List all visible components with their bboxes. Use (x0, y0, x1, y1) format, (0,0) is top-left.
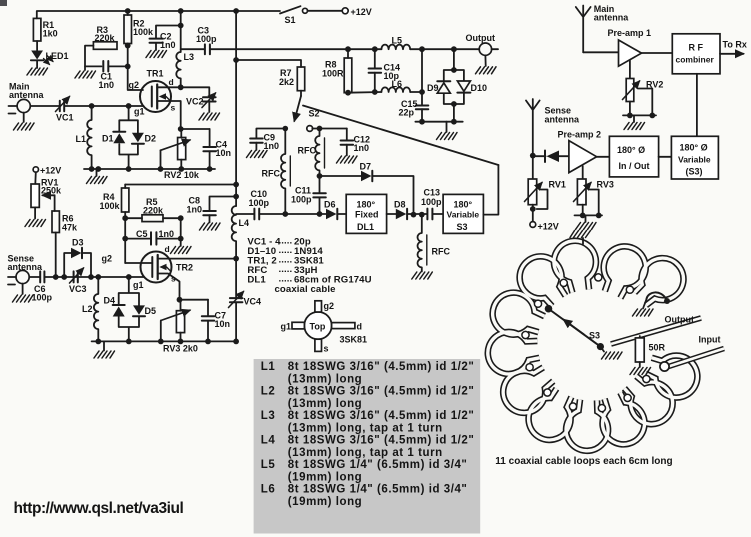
wire antenna to TR1 g1 (30, 105, 143, 107)
resistor R1 (33, 18, 41, 41)
wire diagonal leader (303, 106, 498, 166)
svg-text:3SK81: 3SK81 (340, 335, 368, 345)
svg-text:1n0: 1n0 (187, 205, 203, 215)
wiper RV1 (43, 194, 55, 196)
svg-text:47k: 47k (62, 223, 78, 233)
loop 4 (593, 240, 652, 303)
svg-text:8t 18SWG 1/4" (6.5mm) id 3/4": 8t 18SWG 1/4" (6.5mm) id 3/4" (288, 459, 468, 471)
svg-text:RV3 2k0: RV3 2k0 (163, 344, 198, 354)
node L5L6 right (419, 46, 425, 52)
wire combiner to variable box (696, 74, 698, 137)
phase box S3 (443, 194, 483, 233)
svg-text:D9: D9 (427, 83, 439, 93)
wire L5 to output (410, 48, 479, 50)
wire S2 right to C12 (312, 128, 347, 130)
svg-text:g2: g2 (129, 80, 140, 90)
choke RFC bottom (417, 215, 421, 272)
inductor L6 (381, 87, 410, 92)
svg-text:Pre-amp 2: Pre-amp 2 (558, 130, 602, 140)
node rail right (233, 339, 239, 345)
pinout 3SK81 (281, 301, 368, 354)
node C11 bottom (317, 211, 323, 217)
ground filter bottom (446, 122, 448, 132)
svg-text:L4: L4 (239, 218, 250, 228)
wire source node to C7 (180, 299, 209, 301)
resistor R6 (52, 211, 59, 233)
inductor L1 (87, 106, 91, 169)
node D3 right (88, 274, 94, 280)
node RFC left bottom (282, 211, 288, 217)
wire L6 junction down (421, 49, 423, 105)
node D7 branch (317, 173, 323, 179)
potentiometer RV2 block (629, 61, 631, 79)
svg-text:D3: D3 (72, 238, 84, 248)
loop 12 (485, 329, 540, 377)
terminal +12V lower left (33, 167, 38, 172)
diode pair D9 D10 frame (451, 46, 457, 52)
choke RFC left (281, 129, 285, 214)
capacitor C13 (427, 209, 432, 220)
resistor R4 (124, 185, 126, 189)
capacitor C5 (122, 236, 128, 242)
diode D9 (437, 80, 450, 82)
wire output line L5 (348, 48, 381, 50)
ground TR1 stage (96, 169, 98, 176)
node rail D1D2 (126, 166, 132, 172)
svg-text:D7: D7 (360, 162, 372, 172)
wire L4 tap line (236, 213, 254, 215)
varicap VC2 (181, 87, 210, 97)
input stub coax (667, 349, 724, 368)
svg-text:s: s (171, 103, 176, 113)
svg-text:L6: L6 (261, 484, 276, 496)
svg-text:180°: 180° (454, 200, 473, 210)
svg-text:TR1: TR1 (147, 69, 164, 79)
node rail D4D5 (126, 339, 132, 345)
terminal Output (479, 43, 491, 55)
svg-text:antenna: antenna (9, 90, 45, 100)
svg-text:8t 18SWG 3/16" (4.5mm) id 1/2": 8t 18SWG 3/16" (4.5mm) id 1/2" (288, 435, 475, 447)
diode pair D4 D5 frame (119, 277, 139, 341)
node R2/R3 (125, 43, 131, 49)
svg-text:L4: L4 (261, 435, 276, 447)
potentiometer RV1 (34, 172, 37, 184)
svg-text:(13mm) long: (13mm) long (288, 398, 362, 410)
capacitor C6 (29, 276, 40, 278)
transistor TR1 (140, 69, 171, 113)
wire g2 of TR1 (128, 66, 143, 90)
node R8 bottom (345, 90, 351, 96)
loop 6 (641, 346, 704, 404)
svg-text:antenna: antenna (545, 115, 581, 125)
svg-text:180° Ø: 180° Ø (680, 143, 708, 153)
block 180 in/out (609, 136, 658, 177)
wire C3 to output filter (210, 48, 348, 50)
wire L3 feed (180, 11, 182, 52)
node C14 bottom (372, 89, 378, 95)
coax shield curl with ground (647, 292, 667, 299)
inductor L3 (176, 52, 180, 87)
ground R3/C1 left (75, 71, 96, 78)
wire inout to variable (659, 156, 672, 158)
block RF combiner (672, 34, 720, 74)
node C13 RFC (419, 212, 425, 218)
diode D3 bridge (64, 253, 91, 277)
svg-text:Variable: Variable (678, 155, 711, 165)
svg-text:d: d (357, 322, 363, 332)
svg-text:D5: D5 (145, 306, 157, 316)
svg-text:8t 18SWG 3/16" (4.5mm) id 1/2": 8t 18SWG 3/16" (4.5mm) id 1/2" (288, 386, 475, 398)
wire R2 bottom to C1 node (127, 46, 129, 67)
svg-text:+12V: +12V (538, 222, 559, 232)
svg-text:VC2: VC2 (186, 97, 204, 107)
wire TR2 stage ground rail (92, 340, 237, 342)
svg-text:D1: D1 (102, 134, 114, 144)
wire sense line (44, 276, 143, 278)
svg-text:Pre-amp 1: Pre-amp 1 (608, 28, 652, 38)
svg-text:antenna: antenna (8, 262, 44, 272)
node rail RV2 (178, 166, 184, 172)
node rail RV3 wiper (158, 339, 164, 345)
node rail L2 (95, 339, 101, 345)
svg-text:1n0: 1n0 (99, 80, 115, 90)
svg-text:(13mm) long: (13mm) long (288, 373, 362, 385)
node R7 branch (233, 57, 239, 63)
choke RFC right (315, 129, 319, 177)
transistor TR2 (141, 252, 194, 283)
svg-text:DL1: DL1 (357, 222, 374, 232)
capacitor C8 (210, 197, 237, 211)
loop 10 (521, 383, 582, 448)
svg-text:In / Out: In / Out (619, 161, 650, 171)
svg-text:100p: 100p (421, 197, 442, 207)
resistor R2 (124, 15, 132, 44)
svg-text:g1: g1 (281, 322, 292, 332)
svg-text:1n0: 1n0 (159, 229, 175, 239)
connector rings (534, 300, 541, 307)
node L2 top (95, 274, 101, 280)
loop 7 (616, 367, 682, 433)
wire TR1 stage ground rail (84, 168, 215, 170)
wire R5C5 to ground (180, 218, 182, 246)
resistor R8 (345, 46, 351, 52)
varicap VC1 (60, 101, 64, 111)
svg-text:D2: D2 (145, 134, 157, 144)
capacitor C7 (207, 300, 209, 316)
main antenna symbol (9, 106, 18, 114)
node D4D5 top (126, 274, 132, 280)
node C1/g2 (125, 64, 131, 70)
node rail RV3 (178, 339, 184, 345)
svg-text:VC1: VC1 (56, 113, 74, 123)
svg-text:8t 18SWG 3/16" (4.5mm) id 1/2": 8t 18SWG 3/16" (4.5mm) id 1/2" (288, 410, 475, 422)
svg-text:220k: 220k (143, 206, 164, 216)
svg-text:1n0: 1n0 (160, 40, 176, 50)
diode pair D1 D2 frame (119, 106, 138, 169)
svg-text:Output: Output (665, 315, 695, 325)
diode D10 (457, 81, 470, 91)
svg-text:L1: L1 (76, 134, 87, 144)
svg-text:L3: L3 (261, 410, 276, 422)
ground top of loops (570, 231, 591, 238)
wire S3 right (483, 165, 498, 215)
varicap VC3 (74, 271, 78, 282)
svg-text:D4: D4 (104, 296, 116, 306)
diode D7 (320, 175, 362, 177)
inductor L5 (381, 45, 410, 50)
potentiometer RV3 (176, 311, 184, 333)
svg-text:C13: C13 (424, 188, 441, 198)
diode D6 (326, 209, 337, 219)
svg-text:100p: 100p (196, 34, 217, 44)
resistor R7 (236, 60, 301, 67)
svg-text:100p: 100p (249, 198, 270, 208)
svg-text:D6: D6 (324, 200, 336, 210)
wire top +12V rail (37, 11, 280, 18)
wire TR2 g2 (125, 262, 152, 264)
svg-text:RV1: RV1 (549, 180, 566, 190)
svg-text:RV2: RV2 (646, 80, 663, 90)
svg-text:100p: 100p (32, 293, 53, 303)
svg-text:1n0: 1n0 (354, 143, 370, 153)
svg-text:L2: L2 (82, 304, 93, 314)
svg-text:10n: 10n (216, 148, 232, 158)
capacitor C2 (156, 26, 181, 39)
svg-text:50R: 50R (649, 343, 666, 353)
svg-text:(S3): (S3) (686, 167, 703, 177)
node sense junction (530, 153, 536, 159)
capacitor C10 (254, 209, 259, 220)
capacitor C15 (416, 106, 429, 110)
potentiometer RV3 block (582, 166, 584, 179)
loop 9 (565, 399, 609, 452)
loop 8 (593, 388, 651, 451)
potentiometer RV2 (178, 138, 186, 160)
node right feed top (233, 8, 239, 14)
svg-text:RV3: RV3 (597, 180, 614, 190)
loop 11 (495, 357, 561, 421)
arrow To Rx (720, 53, 744, 55)
node rail C7 (205, 339, 211, 345)
node D1D2 top (126, 103, 132, 109)
wire drain line to VC4 (235, 259, 237, 298)
loop 3 (550, 237, 601, 295)
svg-text:Fixed: Fixed (355, 210, 379, 220)
node feed right (233, 182, 239, 188)
diode D5 (133, 305, 145, 314)
ground S3 pivot (600, 347, 604, 352)
svg-text:D8: D8 (394, 200, 406, 210)
inductor L2 (94, 277, 98, 341)
node L1 top (89, 103, 95, 109)
gray parts table (254, 359, 481, 534)
capacitor C14 (374, 49, 376, 68)
node TR1 drain (178, 84, 184, 90)
svg-text:g2: g2 (102, 254, 113, 264)
svg-text:C5: C5 (136, 229, 148, 239)
svg-text:coaxial cable: coaxial cable (275, 284, 336, 295)
capacitor C4 (209, 129, 211, 147)
terminal +12V block (530, 222, 536, 228)
switch S1 (280, 6, 301, 13)
wire source node to C4 (181, 128, 210, 130)
svg-text:antenna: antenna (594, 13, 630, 23)
svg-text:Variable: Variable (447, 210, 480, 220)
diode D1 (113, 131, 125, 133)
node C8 branch (233, 194, 239, 200)
svg-text:L5: L5 (392, 36, 403, 46)
svg-text:Input: Input (699, 335, 721, 345)
svg-text:combiner: combiner (676, 55, 715, 65)
loop 2 (511, 248, 575, 314)
node R5 right (178, 215, 184, 221)
node TR1 source RV2 (178, 126, 184, 132)
svg-text:S1: S1 (285, 15, 296, 25)
svg-text:R F: R F (689, 43, 704, 53)
node C2 branch (178, 23, 184, 29)
output stub coax (611, 318, 701, 344)
coax loop assembly (485, 231, 724, 468)
wire preamp2 to inout box (597, 156, 610, 158)
svg-text:.....: ..... (279, 274, 293, 285)
diode D8 (387, 213, 396, 215)
svg-text:22p: 22p (399, 108, 415, 118)
svg-text:g1: g1 (133, 280, 144, 290)
node R4 R5 (122, 215, 128, 221)
svg-text:RFC: RFC (298, 146, 317, 156)
node R2 top (125, 8, 131, 14)
svg-text:+12V: +12V (40, 166, 61, 176)
capacitor C12 (346, 129, 348, 141)
svg-text:Top: Top (310, 322, 326, 332)
svg-text:180° Ø: 180° Ø (617, 145, 645, 155)
svg-text:100p: 100p (291, 195, 312, 205)
LED LED1 (31, 51, 43, 60)
svg-text:(13mm) long, tap at 1 turn: (13mm) long, tap at 1 turn (288, 422, 443, 434)
svg-text:S3: S3 (457, 222, 468, 232)
node TR2 source (177, 297, 183, 303)
svg-text:8t 18SWG 3/16" (4.5mm) id 1/2": 8t 18SWG 3/16" (4.5mm) id 1/2" (288, 361, 475, 373)
wire TR2 source (158, 274, 180, 300)
delay line DL1 box (346, 194, 386, 233)
wire R1 to LED1 (36, 41, 38, 51)
wire R4 feed (125, 184, 236, 186)
svg-text:DL1: DL1 (247, 275, 266, 286)
svg-text:TR2: TR2 (176, 263, 193, 273)
svg-text:+12V: +12V (351, 7, 372, 17)
wire TR2 drain (158, 258, 236, 260)
svg-text:11 coaxial cable loops each 6c: 11 coaxial cable loops each 6cm long (495, 456, 672, 467)
wire right feed vertical upper (235, 11, 237, 206)
block diagram main antenna (576, 6, 591, 53)
svg-text:180°: 180° (357, 200, 376, 210)
svg-text:VC3: VC3 (69, 284, 87, 294)
inductor L4 (232, 206, 236, 259)
svg-text:250k: 250k (41, 186, 62, 196)
resistor R3 (93, 42, 117, 50)
diode D2 (132, 133, 144, 142)
svg-text:100k: 100k (133, 27, 154, 37)
coax loop cores (white) (487, 287, 549, 344)
svg-text:(19mm) long: (19mm) long (288, 471, 362, 483)
block 180 variable S3 (671, 136, 718, 179)
wire filter bottom (415, 121, 462, 123)
node L3 branch top (178, 8, 184, 14)
svg-text:g2: g2 (324, 301, 335, 311)
ground TR2 stage (103, 341, 105, 350)
wire R3 left leg (85, 46, 102, 67)
svg-text:d: d (165, 244, 170, 254)
capacitor C3 (181, 48, 205, 50)
loop 5 (626, 249, 692, 314)
node rail RV2 wiper (158, 166, 164, 172)
svg-text:s: s (324, 344, 329, 354)
svg-text:220k: 220k (95, 33, 116, 43)
wire preamp1 to combiner (642, 52, 673, 54)
node R6 sense (53, 274, 59, 280)
svg-text:L1: L1 (261, 361, 276, 373)
svg-text:(19mm) long: (19mm) long (288, 496, 362, 508)
varicap VC4 (230, 298, 243, 302)
amplifier Pre-amp 1 (619, 40, 642, 66)
svg-text:L5: L5 (261, 459, 276, 471)
node rail L1 (89, 166, 95, 172)
wire TR1 drain (157, 86, 181, 88)
wire antenna to preamp1 (583, 51, 618, 53)
parts list values (247, 236, 371, 296)
svg-text:g1: g1 (134, 107, 145, 117)
potentiometer RV1 block (532, 156, 534, 179)
capacitor C11 (319, 176, 321, 193)
loop 1 (487, 287, 549, 344)
resistor 50R (639, 336, 641, 338)
svg-text:RFC: RFC (432, 247, 451, 257)
capacitor C1 (103, 61, 108, 72)
node rail gnd (95, 166, 101, 172)
node D8 junction (411, 212, 417, 218)
terminal +12V (342, 8, 348, 14)
node C14 top (372, 46, 378, 52)
node TR2 drain (233, 256, 239, 262)
svg-text:D10: D10 (471, 83, 488, 93)
ground under C2 (146, 51, 167, 58)
svg-text:s: s (171, 274, 176, 284)
node rail C4 (207, 166, 213, 172)
scan corner artifact (0, 0, 7, 6)
diode sense (533, 155, 546, 157)
switch S2 (294, 96, 301, 121)
wire L6 line (348, 91, 422, 94)
capacitor C9 (256, 129, 285, 139)
block diagram sense antenna (526, 99, 540, 156)
sense antenna symbol (8, 277, 16, 285)
resistor R5 (125, 217, 142, 219)
svg-text:8t 18SWG 1/4" (6.5mm) id 3/4": 8t 18SWG 1/4" (6.5mm) id 3/4" (288, 484, 468, 496)
node D3 left (61, 274, 67, 280)
svg-text:1k0: 1k0 (43, 29, 58, 39)
amplifier Pre-amp 2 (569, 141, 597, 173)
svg-text:L2: L2 (261, 386, 276, 398)
svg-text:(13mm) long, tap at 1 turn: (13mm) long, tap at 1 turn (288, 447, 443, 459)
svg-text:http://www.qsl.net/va3iul: http://www.qsl.net/va3iul (14, 500, 184, 517)
svg-text:S3: S3 (589, 331, 600, 341)
svg-text:L3: L3 (184, 52, 195, 62)
contact S2 right (307, 126, 313, 132)
svg-text:d: d (169, 77, 174, 87)
svg-text:100R: 100R (322, 69, 344, 79)
svg-text:100k: 100k (100, 201, 121, 211)
node S2 left contact (283, 126, 289, 132)
